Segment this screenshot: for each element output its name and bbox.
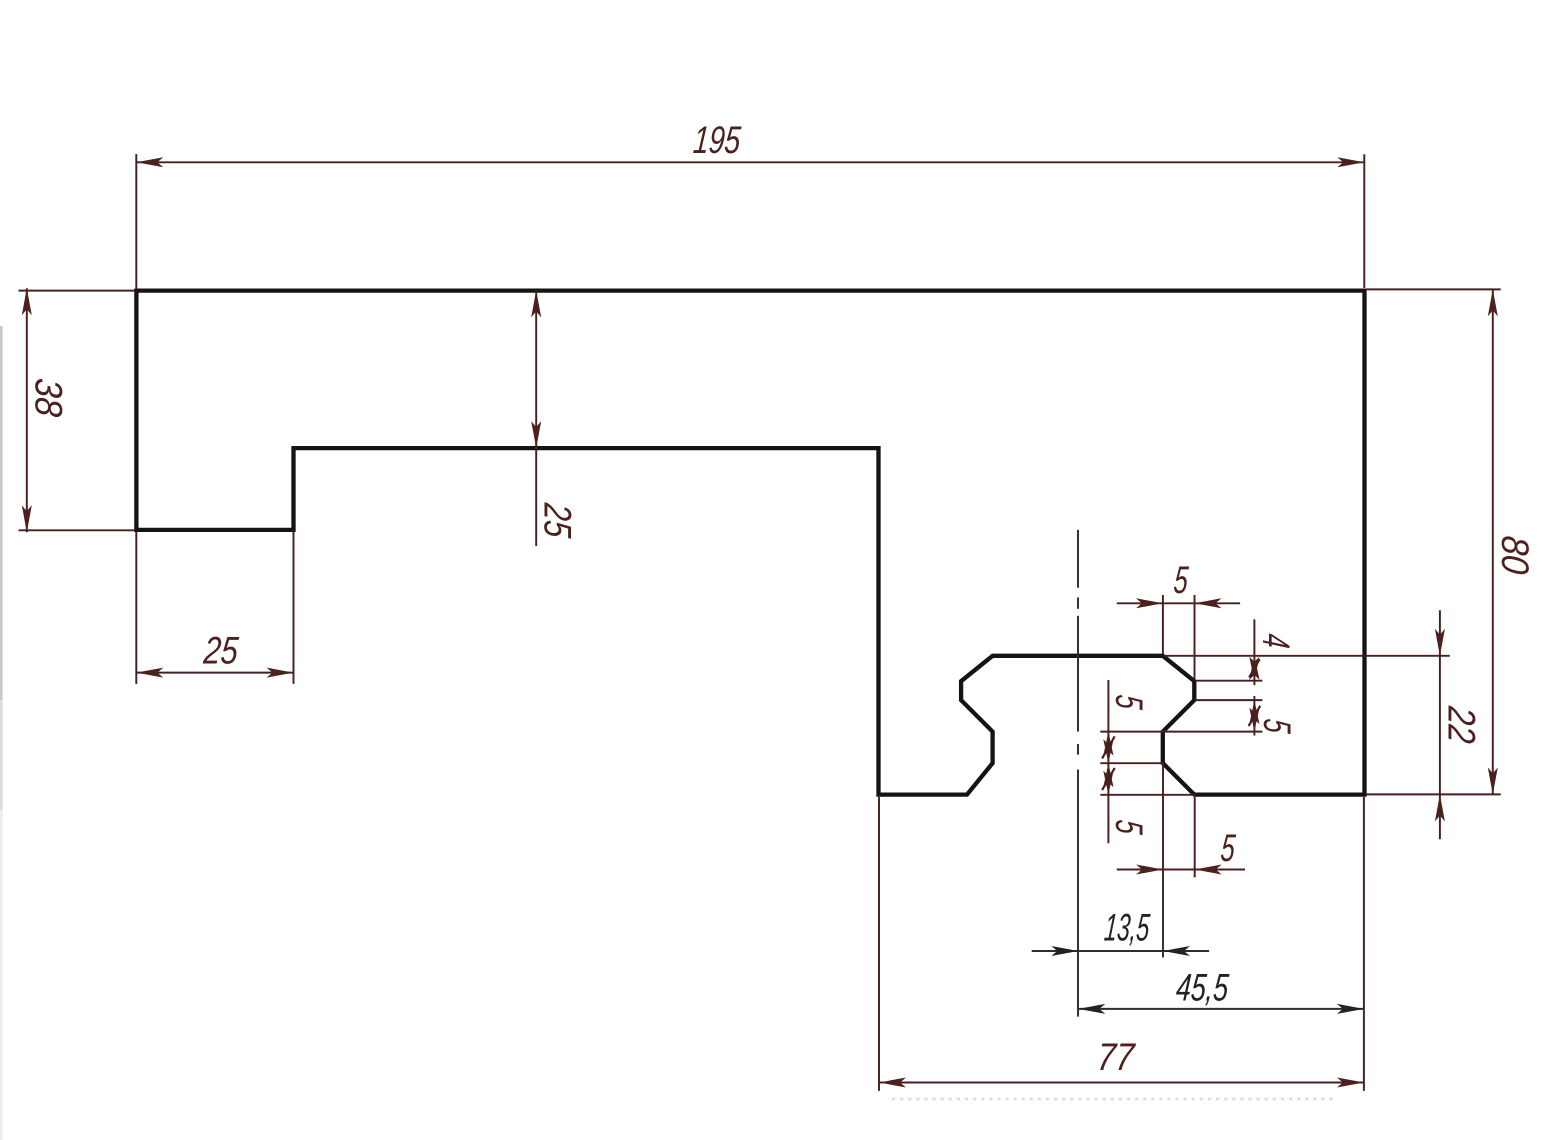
svg-text:195: 195 xyxy=(692,119,743,162)
svg-text:13,5: 13,5 xyxy=(1103,907,1152,950)
svg-text:77: 77 xyxy=(1095,1036,1137,1079)
svg-text:22: 22 xyxy=(1439,704,1482,745)
svg-text:5: 5 xyxy=(1107,818,1150,836)
svg-text:80: 80 xyxy=(1493,534,1536,576)
svg-text:25: 25 xyxy=(201,630,240,673)
svg-text:5: 5 xyxy=(1219,827,1237,870)
svg-text:4: 4 xyxy=(1254,632,1297,650)
svg-text:5: 5 xyxy=(1107,693,1150,711)
svg-text:38: 38 xyxy=(27,377,70,419)
svg-text:25: 25 xyxy=(535,501,578,540)
svg-text:5: 5 xyxy=(1172,559,1190,602)
svg-text:45,5: 45,5 xyxy=(1174,967,1230,1010)
